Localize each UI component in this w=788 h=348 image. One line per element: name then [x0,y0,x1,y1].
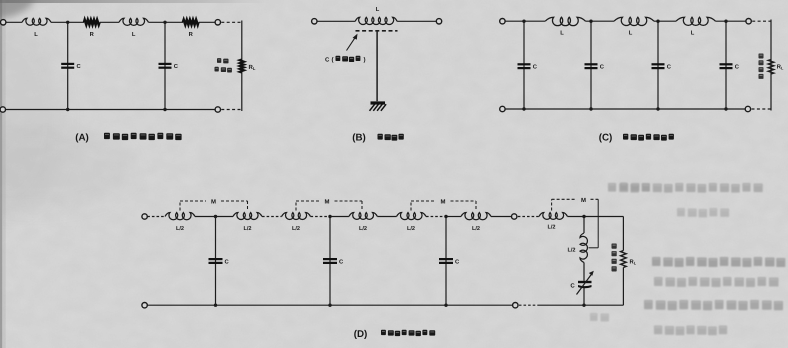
dashed wire D bottom [519,304,539,306]
node C1b junction [522,107,525,110]
wire C top 1 [505,20,545,22]
circuit C top-right terminal [746,19,751,24]
arrow to dashed line (B) [347,37,356,51]
svg-text:L/2: L/2 [407,225,415,232]
wire D node4 down [583,217,585,234]
circuit D bottom mid terminal [513,303,518,308]
wire D bottom rail left [147,304,512,306]
node A1 junction [66,21,69,24]
inductor L/2 s1b (D) [233,213,262,220]
circuit A bottom-right terminal [215,107,220,112]
circuit C bottom-right terminal [745,106,750,111]
inductor L (B) [355,17,397,24]
capacitor C3 branch (C) [657,21,659,109]
wire B left [317,20,355,22]
capacitor C2 (D) [323,258,337,260]
wire B drop to ground [376,31,378,101]
wire A top R1-L2 [100,21,119,23]
svg-text:L/2: L/2 [243,225,251,232]
node C1 junction [522,20,525,23]
dashed wire D s3 mid-left [426,216,446,218]
wire A top-left [6,21,22,23]
dashed wire D in [147,216,165,218]
wire A bottom rail [6,109,216,111]
svg-text:RL: RL [777,65,784,71]
load branch RL vertical (D) [622,217,624,251]
inductor L/2 s2b (D) [349,213,378,220]
node C3 junction [656,20,659,23]
svg-text:L/2: L/2 [547,224,555,231]
circuit C bottom-left terminal [500,106,505,111]
annotation row2 (A load) [215,67,232,73]
wire D s2-s3 [377,216,396,218]
wire C top 2 [586,20,615,22]
node C3b junction [656,107,659,110]
node A2b junction [163,108,166,111]
capacitor C2 branch (C) [590,21,592,109]
capacitor C2 branch wire (A) [164,22,166,109]
capacitor C1 branch (D) [215,217,217,306]
wire D node4-RL corner [584,216,623,218]
wire D s3 mid-right [446,216,461,218]
capacitor C4 (C) [720,63,733,65]
dashed wire D s1-s2 [262,216,282,218]
node C2 junction [589,20,592,23]
dashed wire C top-right [752,20,771,22]
node D2b junction [328,304,331,307]
wire A top L1-node1 [51,21,84,23]
svg-text:L: L [560,31,564,37]
node A1b junction [66,108,69,111]
svg-text:(B): (B) [352,133,366,144]
wire C bottom rail [505,108,745,110]
capacitor C1 (A) [61,63,74,65]
svg-text:L/2: L/2 [567,247,575,254]
left edge scan shadow [0,0,2,348]
caption text (B) [378,134,404,141]
capacitor C3 branch (D) [445,217,447,306]
load resistor RL (A) [240,60,244,73]
node D1b junction [214,304,217,307]
M bracket s1 (D) [179,201,181,211]
ground (B) [371,101,386,104]
wire B right [397,20,436,22]
wire D coil-cap [583,263,585,281]
circuit D top-left terminal [142,214,147,219]
top edge smudge [0,0,270,3]
wire D s1 mid-right [216,216,234,218]
svg-text:L: L [376,7,380,13]
svg-text:L: L [132,32,136,38]
svg-text:L/2: L/2 [472,225,480,232]
inductor L/2 s1a (D) [165,213,195,220]
capacitor C3 (D) [439,258,453,260]
scan mottle left side [0,126,135,210]
svg-text:M: M [441,199,446,206]
node D3b junction [444,304,447,307]
resistor R1 (A) [84,20,100,25]
wire D bottom rail right [539,304,623,306]
inductor L1 (C) [545,17,585,25]
load resistor RL (C) [768,60,774,75]
inductor L2 (A) [119,18,149,25]
dashed wire C bottom-right [752,108,772,110]
capacitor C4 branch (C) [725,21,727,109]
annotation row1 (A load) [217,58,229,63]
M bracket s3 (D) [410,201,412,211]
svg-text:): ) [364,57,366,64]
load line RL (A) [241,21,243,112]
capacitor C2 (C) [585,63,598,65]
circuit A top-left terminal [1,20,6,25]
node D2 junction [328,215,331,218]
wire A top R2-terminal [199,21,215,23]
svg-text:C: C [325,57,330,64]
caption text (C) [623,134,674,141]
svg-text:L: L [691,31,695,37]
caption text (D) [381,330,435,336]
inductor L/2 vertical (D) [580,233,587,263]
circuit C top-left terminal [500,19,505,24]
node D4b junction [582,304,585,307]
inductor L/2 s4 (D) [539,213,568,220]
node C2b junction [589,107,592,110]
wire A top L2-node2 [149,21,184,23]
svg-text:(C): (C) [599,133,613,144]
svg-text:M: M [581,197,586,204]
distributed capacitance dashed line (B) [356,30,398,32]
load resistor RL (D) [621,251,627,268]
dashed wire A top-right [221,21,242,23]
svg-text:(A): (A) [75,133,89,144]
wire C top 3 [654,20,676,22]
load line RL (C) [770,20,772,111]
svg-text:(D): (D) [354,329,368,340]
dashed wire A bottom-right [221,109,242,111]
inductor L1 (A) [22,18,51,25]
capacitor C1 (C) [518,63,531,65]
svg-text:M: M [325,199,330,206]
inductor L3 (C) [676,17,716,25]
node D4 junction [582,215,585,218]
capacitor C1 branch (C) [523,21,525,109]
capacitor C3 (C) [652,63,665,65]
svg-text:RL: RL [630,260,637,266]
inductor L/2 s3b (D) [461,213,491,220]
variable capacitor C (D) [578,281,592,283]
svg-text:L: L [629,31,633,37]
circuit D bottom-left terminal [142,303,147,308]
svg-text:L/2: L/2 [292,225,300,232]
capacitor C1 (D) [209,258,223,260]
capacitor C2 (A) [159,63,172,65]
caption text (A) [104,133,182,140]
circuit A top-right terminal [215,20,220,25]
svg-text:L: L [34,32,38,38]
circuit D top mid terminal [512,214,517,219]
wire D s4-node [568,216,585,218]
annotation column (C load) [759,54,764,79]
wire D s3-terminal [491,216,512,218]
M bracket s4 (D) [551,199,553,210]
inductor L/2 s2a (D) [282,213,311,220]
node A2 junction [163,21,166,24]
top-left corner scan shadow [0,0,98,30]
inductor L2 (C) [614,17,654,25]
svg-text:M: M [211,199,216,206]
M bracket s2 (D) [295,201,297,211]
svg-text:L/2: L/2 [359,225,367,232]
wire D cap-bottom [583,288,585,306]
circuit A bottom-left terminal [0,107,5,112]
annotation column (D load) [612,244,617,272]
capacitor C2 branch (D) [329,217,331,306]
svg-text:C: C [570,283,575,290]
node D3 junction [444,215,447,218]
node C4b junction [724,107,727,110]
node D1 junction [214,215,217,218]
svg-text:L/2: L/2 [176,225,184,232]
node C4 junction [724,20,727,23]
circuit B left terminal [312,19,317,24]
circuit B right terminal [436,19,441,24]
dashed wire D s2 mid-left [311,216,331,218]
wire D s2 mid-right [330,216,349,218]
inductor L/2 s3a (D) [397,213,427,220]
wire D s1 mid-left [195,216,216,218]
wire C top 4 [716,20,747,22]
capacitor C1 branch wire (A) [67,22,69,109]
dashed wire D terminal-s4 [518,216,539,218]
resistor R2 (A) [183,20,199,25]
bleed-through text from reverse page (right side) [590,183,785,336]
